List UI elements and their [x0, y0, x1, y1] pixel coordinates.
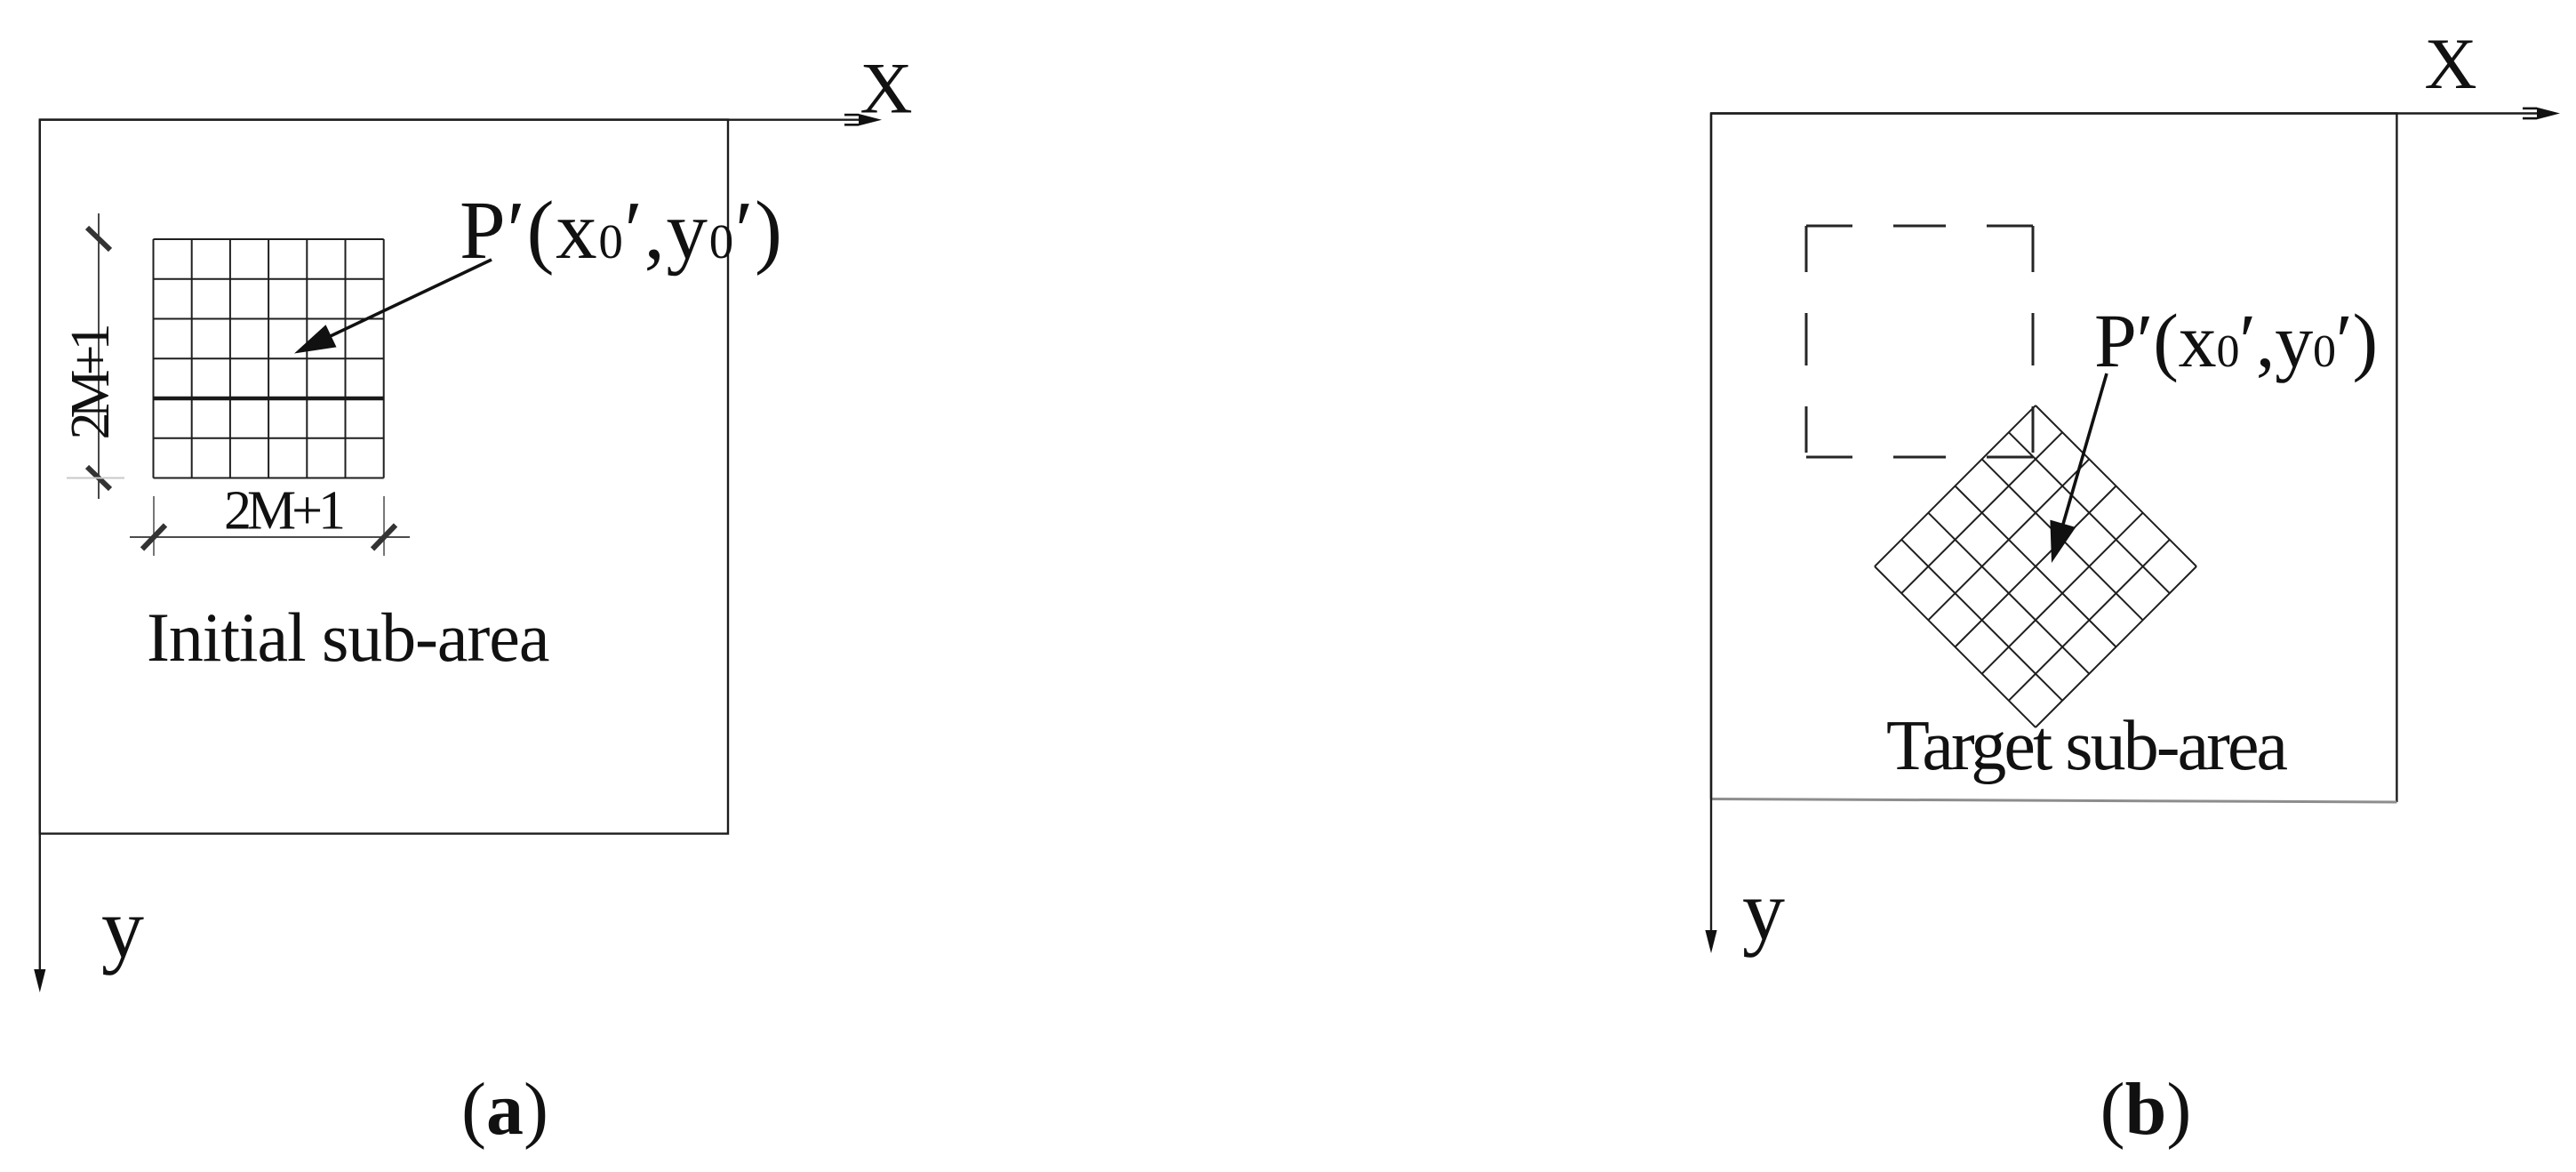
panel (a) y axis	[39, 120, 41, 979]
panel (b) X axis arrowhead	[2523, 108, 2560, 120]
panel (b) leader arrow to P	[2056, 373, 2107, 549]
panel (b) leader arrowhead	[2050, 520, 2076, 563]
panel (a) faint extension line at grid bottom	[67, 478, 124, 479]
panel (a) leader arrowhead	[294, 325, 337, 353]
svg-text:X: X	[860, 48, 912, 129]
panel (a) X axis arrowhead	[844, 114, 882, 126]
svg-text:(a): (a)	[461, 1068, 548, 1151]
panel (a) horizontal dimension line 2M+1	[130, 496, 410, 556]
panel (a) image boundary square	[40, 120, 728, 834]
svg-text:Initial sub-area: Initial sub-area	[147, 598, 549, 676]
panel (b) dashed square (initial sub-area position)	[1806, 226, 2033, 457]
panel (a) initial sub-area grid	[154, 239, 384, 478]
panel (b) rotated target sub-area grid	[1875, 405, 2196, 727]
svg-text:Target sub-area: Target sub-area	[1886, 707, 2288, 785]
panel (a) vertical dimension line 2M+1	[87, 213, 110, 499]
svg-text:y: y	[1742, 863, 1785, 958]
panel (a) y axis arrowhead	[34, 969, 45, 992]
panel (b) image boundary square: top/left/right black, bottom gray	[1711, 114, 2396, 803]
svg-text:(b): (b)	[2100, 1068, 2192, 1151]
panel (a) X axis	[40, 118, 866, 120]
svg-text:X: X	[2424, 23, 2476, 104]
svg-text:2M+1: 2M+1	[224, 481, 343, 542]
panel (a) grid heavy mid line	[154, 397, 384, 401]
panel (a) leader line to P	[302, 260, 492, 349]
panel (b) y axis arrowhead	[1705, 930, 1716, 953]
panel (b) X axis	[1711, 112, 2544, 114]
svg-text:y: y	[101, 880, 144, 975]
panel (b) y axis	[1710, 114, 1712, 940]
panel (b) boundary bottom edge (gray)	[1711, 799, 2396, 803]
svg-text:2M+1: 2M+1	[60, 325, 121, 439]
